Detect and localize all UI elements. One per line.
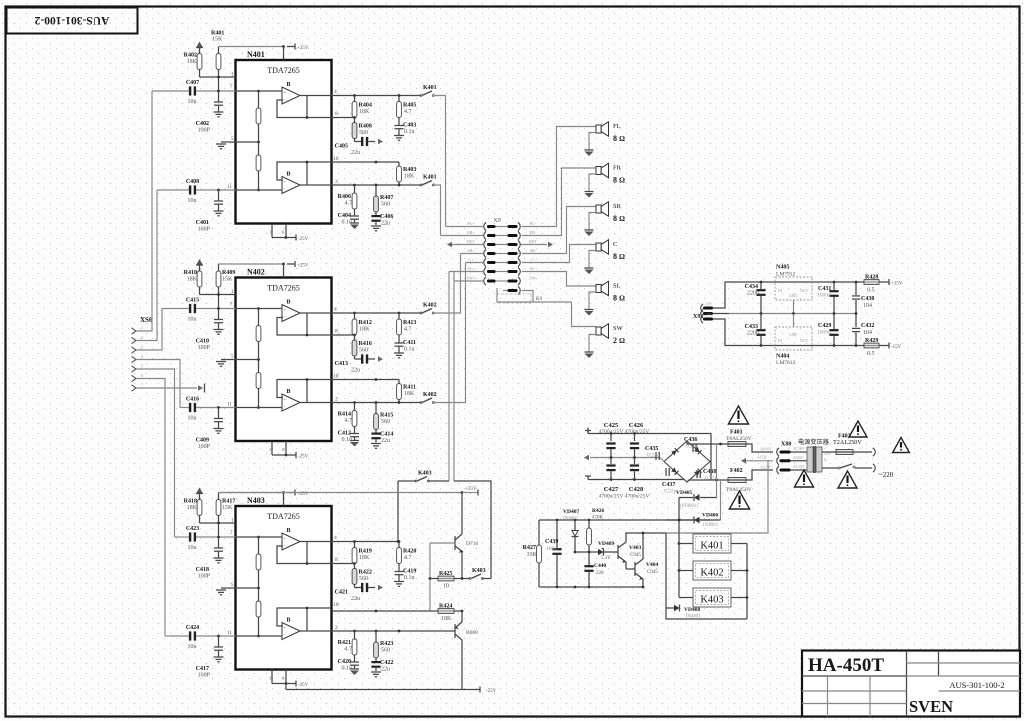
- speaker C 8 ohm: [596, 243, 601, 251]
- svg-text:104: 104: [863, 330, 872, 336]
- net arrow AC mid: [741, 458, 746, 464]
- svg-text:K402: K402: [700, 568, 723, 579]
- svg-text:15K: 15K: [212, 37, 223, 43]
- svg-text:OUT: OUT: [800, 288, 809, 293]
- wire speaker SW return: [589, 335, 596, 353]
- wire -rail regulator: [741, 345, 877, 347]
- svg-text:-25V: -25V: [486, 689, 497, 694]
- relay contact K403 output: [469, 578, 471, 580]
- connector pin XS6-6: [132, 375, 137, 381]
- capacitor C440 220: [588, 552, 590, 565]
- capacitor C412 0.1u: [354, 427, 356, 434]
- svg-text:R406: R406: [338, 194, 351, 200]
- svg-text:560: 560: [359, 576, 368, 582]
- wire output B N401 pin2: [300, 184, 332, 186]
- wire F401 to X80 row1: [746, 444, 773, 452]
- resistor R407 560 zobel B: [375, 185, 377, 196]
- svg-text:N401: N401: [247, 50, 265, 59]
- wire feedback B N403: [277, 608, 332, 626]
- relay coil K403: [679, 597, 693, 599]
- svg-text:560: 560: [381, 419, 390, 425]
- wire X9 row 2 left stub: [441, 235, 484, 237]
- capacitor C428 4700u/25V: [634, 458, 636, 465]
- svg-text:R421: R421: [338, 640, 351, 646]
- regulator N404 LM7812: [775, 327, 812, 350]
- capacitor C427 4700u/25V: [610, 458, 612, 465]
- capacitor C415 10u input A: [189, 304, 191, 313]
- svg-text:GND: GND: [789, 294, 797, 298]
- bias divider inside N402: [258, 309, 260, 408]
- wire input A from C407 N401: [152, 90, 189, 92]
- wire input B from C416 N402: [180, 407, 189, 409]
- svg-text:N404: N404: [776, 354, 789, 360]
- wire -25V rail N403: [286, 689, 462, 691]
- svg-text:10u: 10u: [188, 545, 197, 551]
- svg-text:0.1u: 0.1u: [404, 575, 415, 581]
- svg-text:C422: C422: [380, 660, 393, 666]
- svg-text:R426: R426: [592, 508, 604, 514]
- svg-text:(IN4001): (IN4001): [680, 504, 698, 509]
- svg-text:B: B: [287, 82, 291, 88]
- wire pin8 to R419 N403: [332, 563, 355, 565]
- ground below C402: [214, 111, 224, 113]
- svg-text:11: 11: [227, 185, 232, 190]
- svg-text:4700u/25V: 4700u/25V: [599, 494, 624, 500]
- svg-text:R425: R425: [439, 571, 452, 577]
- capacitor C418 100P shunt A: [218, 537, 220, 548]
- wire pin4 riser to K403: [397, 481, 399, 542]
- wire feedback A N403: [277, 546, 332, 564]
- capacitor C436 0.22u: [692, 444, 694, 452]
- svg-text:100P: 100P: [198, 444, 211, 450]
- op-amp A inside N403: [282, 533, 300, 550]
- wire X80 row2 sense down to relay circuit: [666, 460, 768, 533]
- wire feed to speaker SR: [522, 207, 596, 254]
- wire pin8 to R404 N401: [332, 117, 355, 119]
- wire speaker SL return: [589, 292, 596, 310]
- wire feedback A N401: [277, 100, 332, 118]
- wire XS6-4 to C416: [136, 360, 180, 408]
- capacitor C417 100P shunt B: [218, 636, 220, 647]
- wire feedback A N402: [277, 318, 332, 336]
- svg-text:B: B: [287, 172, 291, 178]
- wire filter + rail: [588, 433, 711, 435]
- transistor V402 B688: [461, 611, 463, 622]
- resistor R401 15K: [218, 47, 220, 54]
- svg-text:C420: C420: [338, 659, 351, 665]
- wire bias tap to ground N401: [221, 141, 259, 143]
- svg-text:4: 4: [334, 307, 337, 313]
- capacitor C410 100P shunt A: [218, 309, 220, 320]
- transistor V401 D716: [461, 493, 463, 535]
- wire relay supply rail: [539, 519, 711, 521]
- capacitor C406 22u: [375, 212, 377, 215]
- svg-text:22u: 22u: [351, 596, 360, 602]
- svg-text:C424: C424: [186, 625, 199, 631]
- svg-text:FL+: FL+: [467, 221, 475, 226]
- connector X9 row 5: [484, 258, 486, 266]
- wire feed to speaker C: [522, 245, 596, 263]
- svg-text:0.1u: 0.1u: [342, 220, 353, 226]
- capacitor C429 1000u: [833, 314, 835, 330]
- svg-text:4: 4: [334, 535, 337, 541]
- svg-text:T8AL250V: T8AL250V: [726, 436, 752, 442]
- svg-text:R402: R402: [184, 53, 197, 59]
- fuse F401 T8AL250V: [728, 442, 746, 447]
- relay contact K402 channel B: [420, 402, 422, 404]
- svg-text:C413: C413: [335, 361, 348, 367]
- resistor R423 560 zobel B: [375, 631, 377, 642]
- wire input B from C424 N403: [165, 635, 189, 637]
- op-amp B inside N401: [282, 177, 300, 194]
- capacitor C411 0.1u: [398, 335, 400, 343]
- svg-text:R401: R401: [211, 31, 224, 37]
- title block: [802, 651, 1020, 717]
- wire input A from C423 N403: [175, 536, 189, 538]
- svg-text:0.1u: 0.1u: [404, 347, 415, 353]
- svg-text:22u: 22u: [381, 667, 390, 673]
- svg-text:VD409: VD409: [598, 541, 614, 547]
- resistor R425 10: [429, 577, 432, 580]
- svg-text:C408: C408: [186, 179, 199, 185]
- ground arrow below speaker SR: [585, 229, 594, 231]
- resistor R402 18K: [199, 51, 201, 54]
- svg-text:C439: C439: [545, 539, 558, 545]
- svg-text:R423: R423: [380, 641, 393, 647]
- svg-text:8: 8: [335, 329, 338, 335]
- svg-text:560: 560: [359, 130, 368, 136]
- svg-text:220u: 220u: [747, 331, 759, 337]
- svg-text:8: 8: [335, 557, 338, 563]
- ground arrow below speaker SL: [585, 309, 594, 311]
- svg-text:C411: C411: [403, 340, 416, 346]
- bias divider inside N401: [258, 91, 260, 190]
- wire feed to speaker SW: [572, 302, 597, 327]
- svg-text:TDA7265: TDA7265: [267, 284, 299, 293]
- svg-text:0.22u: 0.22u: [664, 489, 677, 495]
- relay contact K403: [398, 480, 416, 482]
- svg-text:R417: R417: [222, 499, 235, 505]
- wire N404 ground stub: [793, 314, 795, 328]
- svg-text:11: 11: [227, 631, 232, 636]
- wire bridge AC bottom to fuse F402: [687, 480, 728, 482]
- svg-text:1000u: 1000u: [817, 293, 831, 299]
- svg-text:K9: K9: [536, 297, 543, 302]
- svg-text:AC19V: AC19V: [760, 466, 772, 470]
- svg-text:560: 560: [381, 202, 390, 208]
- wire pin4 output net N402: [332, 312, 422, 314]
- power flag above R402: [196, 42, 203, 48]
- wire input B N401: [236, 189, 283, 191]
- svg-text:22u: 22u: [351, 150, 360, 156]
- svg-text:SVEN: SVEN: [909, 697, 953, 716]
- svg-text:R416: R416: [359, 341, 372, 347]
- svg-text:C432: C432: [861, 323, 874, 329]
- svg-text:0.5: 0.5: [867, 288, 875, 294]
- svg-text:C414: C414: [380, 432, 393, 438]
- svg-text:C435: C435: [645, 446, 658, 452]
- wire connector row7 riser to K403b loop: [453, 272, 455, 482]
- warning triangle below switch: [838, 471, 857, 488]
- svg-text:V404: V404: [646, 562, 658, 568]
- svg-text:C419: C419: [403, 569, 416, 575]
- svg-text:AC19V: AC19V: [760, 448, 772, 452]
- svg-text:10u: 10u: [188, 317, 197, 323]
- svg-text:C440: C440: [594, 563, 606, 569]
- svg-text:AUS-301-100-2: AUS-301-100-2: [949, 680, 1004, 690]
- mains switch: [822, 467, 838, 469]
- svg-text:8: 8: [613, 252, 617, 261]
- svg-text:2: 2: [335, 179, 338, 185]
- ground at N401 pin5: [216, 143, 226, 145]
- op-amp IC N403 TDA7265 block: [236, 506, 332, 670]
- svg-text:R414: R414: [338, 412, 351, 418]
- svg-text:4700u/25V: 4700u/25V: [625, 429, 650, 435]
- svg-text:Ω: Ω: [619, 214, 625, 223]
- capacitor C439 1000u: [556, 520, 558, 548]
- power flag -15V out: [879, 345, 889, 347]
- svg-text:FL: FL: [613, 123, 621, 130]
- warning triangle right of mains: [893, 438, 910, 453]
- svg-text:11: 11: [227, 403, 232, 408]
- wire V404 emitter to ground rail: [642, 579, 644, 587]
- fuse F402 T8AL250V: [728, 478, 746, 483]
- svg-text:18K: 18K: [404, 391, 415, 397]
- svg-text:C436: C436: [684, 437, 697, 443]
- relay coil K402: [679, 570, 693, 572]
- wire -25V stub N403: [271, 670, 273, 684]
- svg-text:22u: 22u: [381, 438, 390, 444]
- wire bridge AC top to fuse F401: [687, 441, 728, 444]
- svg-text:SW+: SW+: [467, 276, 476, 281]
- svg-text:IN: IN: [778, 288, 782, 293]
- resistor R406 4.7 zobel A: [354, 185, 356, 193]
- svg-text:SR: SR: [613, 203, 622, 210]
- svg-text:100P: 100P: [198, 128, 211, 134]
- wire output A N401 pin4: [300, 95, 332, 97]
- wire K401 to connector row1: [433, 96, 445, 227]
- svg-text:18K: 18K: [404, 174, 415, 180]
- svg-text:K402: K402: [423, 303, 437, 309]
- resistor R429 0.5: [864, 343, 879, 348]
- capacitor C401 100P shunt B: [218, 190, 220, 201]
- svg-text:C945: C945: [647, 570, 658, 575]
- capacitor C434 220u: [760, 282, 762, 289]
- resistor R411 18K: [398, 380, 400, 384]
- wire input B N403: [236, 635, 283, 637]
- wire -25V stub N402: [271, 441, 273, 455]
- svg-text:4700u/25V: 4700u/25V: [625, 494, 650, 500]
- svg-text:AC19V: AC19V: [793, 447, 805, 451]
- power flag +25V N402: [287, 263, 295, 265]
- svg-text:10: 10: [333, 156, 339, 162]
- speaker SW 2 ohm: [596, 327, 601, 335]
- resistor R426 470K: [588, 520, 590, 528]
- power flag +25V N401: [287, 46, 295, 48]
- wire output A N403 pin4: [300, 541, 332, 543]
- svg-text:Ω: Ω: [619, 252, 625, 261]
- svg-text:1: 1: [269, 676, 271, 681]
- svg-text:C426: C426: [629, 422, 644, 429]
- svg-text:C: C: [613, 241, 617, 248]
- wire K401b to connector row2: [433, 185, 440, 236]
- svg-text:IN4001: IN4001: [563, 517, 579, 522]
- svg-text:10: 10: [443, 584, 449, 590]
- svg-text:C438: C438: [703, 469, 716, 475]
- resistor R422 560: [354, 564, 356, 569]
- svg-text:Ω: Ω: [619, 134, 625, 143]
- resistor R417 15K: [218, 493, 220, 500]
- resistor R405 4.7: [398, 96, 400, 102]
- connector X9 row 8: [503, 290, 508, 292]
- svg-text:18K: 18K: [359, 109, 370, 115]
- wire V404 collector: [642, 533, 644, 559]
- op-amp B inside N403: [282, 623, 300, 640]
- svg-text:8: 8: [613, 294, 617, 303]
- ground arrow below speaker C: [585, 267, 594, 269]
- wire relay ground rail: [539, 586, 643, 588]
- capacitor C424 10u input B: [189, 631, 191, 640]
- capacitor C433 220u: [760, 314, 762, 330]
- svg-text:K401: K401: [423, 175, 437, 181]
- wire pin8 to R412 N402: [332, 334, 355, 336]
- capacitor C409 100P shunt B: [218, 408, 220, 419]
- relay contact K401 channel B: [420, 184, 422, 186]
- wire bias tap to ground N402: [221, 359, 259, 361]
- capacitor C425 4700u/25V: [610, 434, 612, 442]
- svg-text:K401: K401: [700, 541, 723, 552]
- capacitor C430 104: [855, 282, 857, 295]
- capacitor C423 10u input A: [189, 532, 191, 541]
- ground below C417: [214, 656, 224, 658]
- resistor R418 18K: [199, 497, 201, 500]
- speaker SR 8 ohm: [596, 205, 601, 213]
- wire N405 ground stub: [793, 300, 795, 314]
- svg-text:0.1u: 0.1u: [404, 129, 415, 135]
- svg-text:X9: X9: [493, 218, 500, 224]
- svg-text:0.1u: 0.1u: [342, 437, 353, 443]
- power flag +25V N403: [287, 492, 295, 494]
- ground below C418: [214, 557, 224, 559]
- capacitor C426 4700u/25V: [634, 434, 636, 442]
- svg-text:1: 1: [269, 447, 271, 452]
- wire relay right bus: [731, 543, 747, 545]
- wire +25V rail N403: [219, 492, 284, 494]
- ground at N402 pin5: [216, 361, 226, 363]
- wire filter - rail: [588, 479, 687, 481]
- wire bias bottoms N401: [199, 70, 201, 78]
- resistor R419 18K: [354, 542, 356, 548]
- svg-text:R428: R428: [865, 275, 878, 281]
- op-amp A inside N401: [282, 87, 300, 104]
- svg-text:C427: C427: [604, 486, 619, 493]
- svg-text:R420: R420: [403, 549, 416, 555]
- svg-text:GND: GND: [789, 333, 797, 337]
- ground below C404: [350, 222, 359, 224]
- ground below C410: [214, 329, 224, 331]
- ground below C403: [394, 135, 404, 137]
- wire X9 row8 loop to SW: [522, 291, 533, 303]
- transistor V404 C945: [634, 562, 636, 576]
- wire input B N402: [236, 407, 283, 409]
- wire output B N402 pin2: [300, 402, 332, 404]
- connector pin XS6-5: [132, 366, 137, 372]
- svg-text:TDA7265: TDA7265: [267, 512, 299, 521]
- svg-text:C434: C434: [745, 284, 758, 290]
- wire bridge + to rail: [710, 461, 711, 463]
- svg-text:R415: R415: [380, 413, 393, 419]
- wire feed to speaker FR: [522, 168, 596, 236]
- svg-text:LM7812: LM7812: [776, 360, 796, 366]
- capacitor C403 0.1u: [398, 118, 400, 126]
- ground below C420: [350, 668, 359, 670]
- ground below C412: [350, 440, 359, 442]
- svg-text:220: 220: [596, 571, 604, 576]
- svg-text:4.7: 4.7: [345, 647, 353, 653]
- svg-text:C403: C403: [403, 123, 416, 129]
- svg-text:22u: 22u: [381, 221, 390, 227]
- wire F402 to X80 row3: [746, 470, 773, 480]
- wire feed to speaker FL: [522, 127, 596, 227]
- svg-text:100P: 100P: [198, 574, 211, 580]
- capacitor C413 22u bootstrap: [354, 356, 356, 359]
- ground arrow below speaker SW: [585, 351, 594, 353]
- svg-text:N403: N403: [247, 496, 265, 505]
- svg-text:~220: ~220: [879, 471, 894, 479]
- svg-text:C425: C425: [604, 422, 619, 429]
- svg-text:F401: F401: [730, 430, 743, 436]
- op-amp A inside N402: [282, 305, 300, 322]
- connector pin XS6-3: [132, 347, 137, 353]
- svg-text:SL+: SL+: [467, 266, 475, 271]
- wire input A from C415 N402: [162, 308, 189, 310]
- svg-text:VD406: VD406: [702, 513, 718, 519]
- wire K403b contact to loop: [482, 578, 491, 580]
- ground arrow below speaker FL: [585, 149, 594, 151]
- wire pin2 output net N402: [332, 402, 422, 404]
- svg-text:R419: R419: [359, 549, 372, 555]
- wire XS6-6 to C424: [136, 379, 165, 637]
- svg-text:HA-450T: HA-450T: [808, 655, 884, 676]
- svg-text:C430: C430: [861, 296, 874, 302]
- svg-text:R404: R404: [359, 103, 372, 109]
- svg-text:C428: C428: [629, 486, 644, 493]
- svg-text:SW: SW: [613, 325, 624, 332]
- svg-text:OUT: OUT: [800, 338, 809, 343]
- svg-text:DET: DET: [467, 239, 476, 244]
- ground below C422: [371, 671, 381, 673]
- jumper box below X9: [497, 294, 531, 303]
- svg-text:VD407: VD407: [563, 509, 579, 515]
- svg-text:C402: C402: [196, 121, 209, 127]
- capacitor C405 22u bootstrap: [354, 139, 356, 142]
- svg-text:Ω: Ω: [619, 176, 625, 185]
- svg-text:15K: 15K: [222, 505, 233, 511]
- wire K402b to connector row5: [433, 263, 465, 403]
- wire pin4 output net N401: [332, 95, 422, 97]
- svg-text:4.7: 4.7: [404, 327, 412, 333]
- svg-text:1N4001: 1N4001: [702, 523, 719, 528]
- svg-text:C429: C429: [818, 323, 831, 329]
- svg-text:4: 4: [334, 89, 337, 95]
- warning triangle above F403: [849, 421, 867, 437]
- svg-text:220u: 220u: [747, 291, 759, 297]
- ground below C411: [394, 352, 404, 354]
- capacitor C438 0.22u: [696, 470, 698, 478]
- svg-text:C410: C410: [196, 339, 209, 345]
- svg-text:4.7: 4.7: [345, 201, 353, 207]
- resistor R416 560: [354, 335, 356, 340]
